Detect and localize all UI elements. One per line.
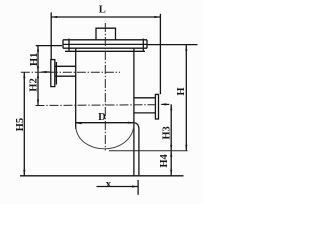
svg-text:D: D (98, 112, 106, 123)
svg-text:H3: H3 (161, 126, 172, 140)
svg-text:x: x (106, 179, 112, 190)
svg-text:H5: H5 (15, 118, 26, 132)
svg-text:H: H (176, 87, 187, 96)
svg-text:H2: H2 (29, 78, 40, 92)
svg-text:L: L (99, 5, 106, 16)
svg-text:H4: H4 (159, 153, 170, 167)
svg-text:H1: H1 (29, 53, 40, 67)
